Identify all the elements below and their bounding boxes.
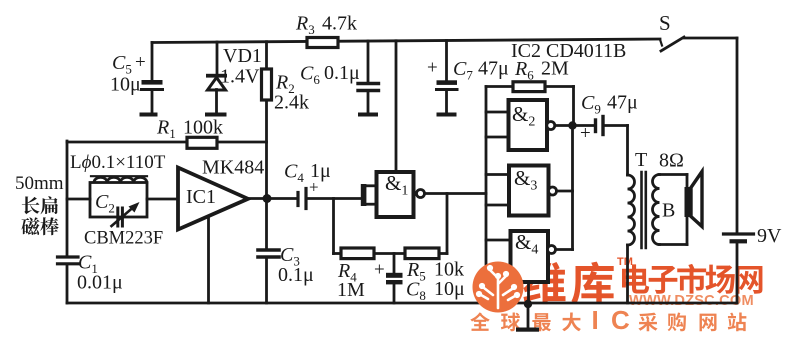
capacitor C1 0.01u	[58, 255, 79, 258]
svg-text:IC1: IC1	[186, 186, 216, 208]
watermark dzsc.com orange text	[470, 256, 762, 335]
inductor L ferrite rod coil	[91, 175, 147, 177]
wire battery to bottom rail	[736, 243, 739, 303]
svg-text:TM: TM	[617, 256, 633, 268]
svg-text:C7: C7	[453, 58, 473, 83]
svg-text:T: T	[635, 149, 647, 171]
svg-text:C: C	[611, 305, 630, 335]
wire IC1 output	[248, 197, 297, 200]
wire joining gate outputs	[571, 126, 574, 250]
resistor R5 10k	[405, 248, 439, 259]
svg-text:1.4V: 1.4V	[220, 66, 260, 88]
battery 9V	[724, 232, 754, 235]
label 长扁	[22, 196, 40, 214]
svg-text:+: +	[374, 260, 385, 281]
tank box	[90, 183, 147, 218]
wire IC1 ground	[207, 217, 210, 304]
svg-text:0.1μ: 0.1μ	[278, 264, 314, 286]
svg-text:0.1μ: 0.1μ	[324, 62, 360, 84]
node IC1 output	[263, 194, 272, 203]
svg-text:+: +	[135, 52, 146, 73]
speaker B	[685, 187, 692, 217]
watermark logo circle	[473, 262, 524, 313]
transformer secondary	[653, 175, 660, 245]
transformer core	[640, 172, 643, 248]
wire left vertical (antenna)	[66, 141, 69, 256]
svg-text:4.7k: 4.7k	[322, 13, 357, 35]
capacitor C3 0.1u	[265, 203, 268, 249]
svg-text:R1: R1	[156, 117, 176, 142]
svg-text:2M: 2M	[541, 58, 569, 80]
svg-text:WWW.DZSC.COM: WWW.DZSC.COM	[629, 293, 754, 309]
svg-text:10μ: 10μ	[434, 278, 465, 300]
svg-text:47μ: 47μ	[607, 92, 638, 114]
svg-text:B: B	[662, 200, 675, 222]
wire input node down to R4	[332, 199, 335, 254]
diode VD1 1.4V	[216, 42, 219, 74]
svg-text:50mm: 50mm	[15, 173, 64, 194]
wire top supply rail	[152, 39, 660, 43]
NAND gate U2 (&2)	[509, 100, 548, 150]
wire gates input bus	[485, 87, 488, 269]
wire supply to gate U1	[395, 41, 398, 171]
ground symbol	[524, 300, 532, 308]
capacitor C4 1u	[296, 193, 299, 206]
resistor R2 2.4k	[265, 42, 268, 69]
svg-text:10μ: 10μ	[110, 74, 141, 96]
wire tank to left rail	[67, 198, 90, 201]
wire gate4 ground	[527, 282, 530, 303]
NAND gate U1 (&1)	[377, 172, 414, 217]
capacitor C5 10u	[151, 43, 154, 81]
svg-text:S: S	[659, 11, 671, 35]
transformer T primary	[628, 175, 635, 245]
svg-text:R3: R3	[295, 13, 315, 38]
capacitor C8 10u	[393, 254, 396, 273]
svg-text:0.01μ: 0.01μ	[77, 272, 123, 294]
node gates output	[568, 121, 576, 129]
resistor R6 2M feedback	[486, 85, 513, 88]
svg-text:C4: C4	[284, 161, 304, 186]
resistor R3 4.7k	[307, 38, 338, 48]
svg-text:+: +	[580, 123, 591, 144]
wire tank to IC1 input	[147, 198, 177, 201]
svg-text:100k: 100k	[183, 117, 223, 139]
svg-text:MK484: MK484	[202, 157, 264, 179]
svg-text:9V: 9V	[757, 225, 782, 247]
svg-text:47μ: 47μ	[478, 58, 509, 80]
svg-text:1M: 1M	[337, 279, 365, 301]
NAND gate U3 (&3)	[509, 166, 549, 216]
svg-text:C9: C9	[581, 92, 601, 117]
resistor R1 100k	[187, 137, 217, 148]
wire right side down to battery	[736, 38, 739, 233]
svg-text:8Ω: 8Ω	[659, 150, 684, 172]
NAND gate U4 (&4)	[511, 231, 549, 282]
capacitor C9 47u	[577, 124, 594, 127]
wire secondary to speaker	[659, 173, 687, 176]
wire bottom ground rail	[67, 302, 737, 305]
wire gate1 output to input bus	[425, 192, 487, 195]
svg-text:C6: C6	[300, 63, 320, 88]
label 磁棒	[21, 217, 39, 235]
svg-text:Lϕ0.1×110T: Lϕ0.1×110T	[70, 152, 166, 173]
wire R1 feedback	[67, 141, 187, 144]
svg-text:VD1: VD1	[223, 45, 262, 67]
resistor R4 1M	[334, 252, 342, 255]
svg-text:+: +	[427, 58, 438, 79]
switch S	[660, 40, 662, 46]
capacitor C7 47u	[445, 41, 448, 81]
svg-text:CBM223F: CBM223F	[84, 229, 163, 249]
svg-text:+: +	[309, 178, 319, 197]
capacitor C6 0.1u	[367, 41, 370, 82]
wire primary to ground rail	[626, 245, 629, 303]
variable capacitor C2	[116, 208, 119, 226]
op-amp IC1 MK484	[178, 168, 248, 230]
svg-text:I: I	[592, 305, 599, 335]
svg-text:2.4k: 2.4k	[274, 92, 309, 114]
